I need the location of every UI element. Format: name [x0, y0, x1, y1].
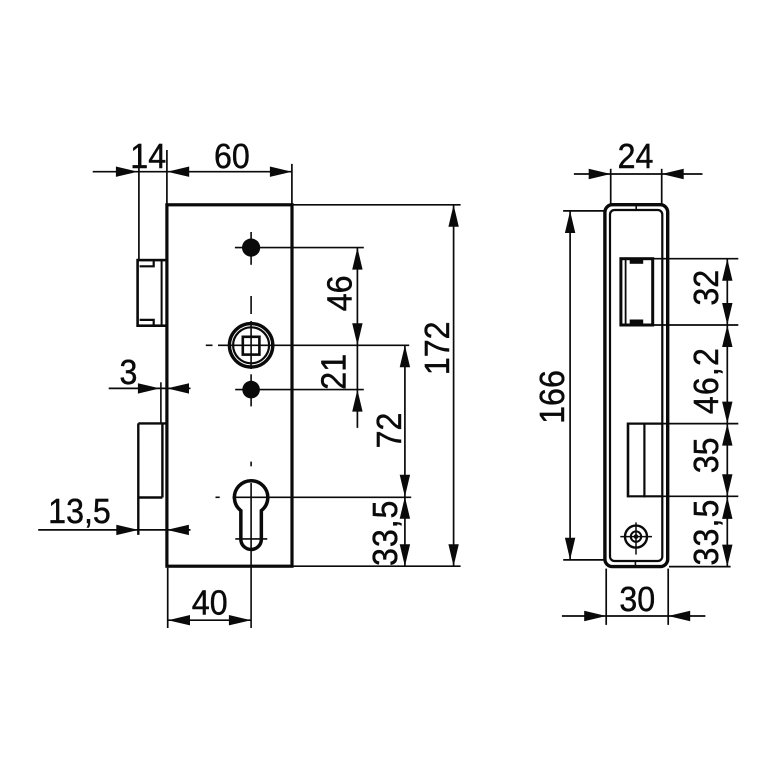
svg-text:3: 3	[119, 353, 137, 392]
svg-text:35: 35	[687, 437, 726, 473]
handle follower (square spindle)	[206, 324, 409, 367]
arrow 40 left-tip	[168, 615, 190, 625]
svg-text:14: 14	[130, 137, 166, 176]
case top edge extension (172 dim)	[292, 204, 461, 206]
svg-text:72: 72	[370, 413, 409, 449]
svg-text:24: 24	[618, 137, 654, 176]
dimension 166	[563, 211, 605, 560]
arrow 46,2 up-tip	[722, 325, 732, 347]
arrow 24 left-tip	[662, 169, 684, 179]
arrow 46 down-tip / 21 top	[352, 323, 362, 345]
svg-text:13,5: 13,5	[48, 492, 111, 531]
svg-text:172: 172	[418, 321, 457, 375]
arrow 60 right-tip	[270, 167, 292, 177]
arrow 166 down-tip	[565, 538, 575, 560]
arrow 33,5 down-tip	[400, 544, 410, 566]
arrow 13,5 right-tip	[116, 525, 138, 535]
spindle hole top (filled dot)	[235, 232, 364, 265]
arrow 46 up-tip	[352, 248, 362, 270]
dimension line 72 / 33,5	[404, 345, 406, 566]
dimension 14 and 60 top line	[93, 147, 292, 260]
vertical centerline dashes	[250, 296, 252, 466]
arrow 60 left-tip	[167, 167, 189, 177]
svg-text:30: 30	[619, 580, 655, 619]
faceplate outline right view	[605, 205, 668, 567]
faceplate latch cutout	[621, 259, 653, 325]
latch bolt protrusion	[138, 260, 167, 326]
arrow 13,5 left-tip	[167, 525, 189, 535]
lock case outline	[167, 205, 292, 566]
dimension 24	[574, 169, 703, 204]
dimension 40 bottom	[168, 568, 251, 628]
faceplate deadbolt cutout	[628, 423, 662, 498]
dimension line 46 / 21	[356, 248, 358, 428]
arrow 46,2 down-tip	[722, 402, 732, 424]
dimension line 172	[453, 205, 455, 566]
arrow 21 bottom up-tip	[352, 390, 362, 412]
dimension 13,5	[38, 529, 190, 531]
faceplate screw hole	[620, 522, 652, 554]
arrow 3 right-tip	[138, 383, 160, 393]
arrow 35 down-tip	[722, 474, 732, 496]
arrow 32 up-tip	[722, 259, 732, 281]
arrow 72 down-tip	[400, 475, 410, 497]
arrow 3 left-tip	[167, 383, 189, 393]
svg-text:166: 166	[533, 370, 572, 424]
svg-text:46,2: 46,2	[687, 347, 726, 414]
case bottom edge extension (172 dim)	[292, 565, 461, 567]
arrow 30 left-tip	[668, 611, 690, 621]
arrow 24 right-tip	[589, 169, 611, 179]
arrow 40 right-tip	[229, 615, 251, 625]
arrow 33,5 up-tip	[400, 497, 410, 519]
arrow 33,5 up-tip right view	[722, 497, 732, 519]
arrow 14 right-tip	[116, 167, 138, 177]
dimension 3	[109, 387, 191, 389]
arrow 32 down-tip	[722, 303, 732, 325]
arrow 33,5 down-tip right view	[722, 545, 732, 567]
svg-text:32: 32	[687, 270, 726, 306]
svg-text:60: 60	[214, 137, 250, 176]
svg-text:21: 21	[315, 354, 354, 390]
svg-text:33,5: 33,5	[687, 498, 726, 565]
arrow 30 right-tip	[584, 611, 606, 621]
svg-text:46: 46	[321, 275, 360, 311]
arrow 172 up-tip	[448, 205, 458, 227]
arrow 172 down-tip	[448, 544, 458, 566]
svg-text:33,5: 33,5	[366, 500, 405, 566]
deadbolt protrusion	[138, 423, 167, 535]
arrow 166 up-tip	[565, 211, 575, 233]
arrow 35 up-tip	[722, 424, 732, 446]
lower fixing hole (filled dot)	[235, 374, 364, 406]
right side stacked dimensions 32 46,2 35 33,5	[654, 259, 738, 567]
arrow 72 up-tip	[400, 345, 410, 367]
dimension 30 bottom right	[562, 569, 706, 625]
euro profile cylinder hole	[216, 481, 412, 628]
extension tick for dim 3	[160, 382, 162, 423]
svg-text:40: 40	[192, 584, 228, 623]
